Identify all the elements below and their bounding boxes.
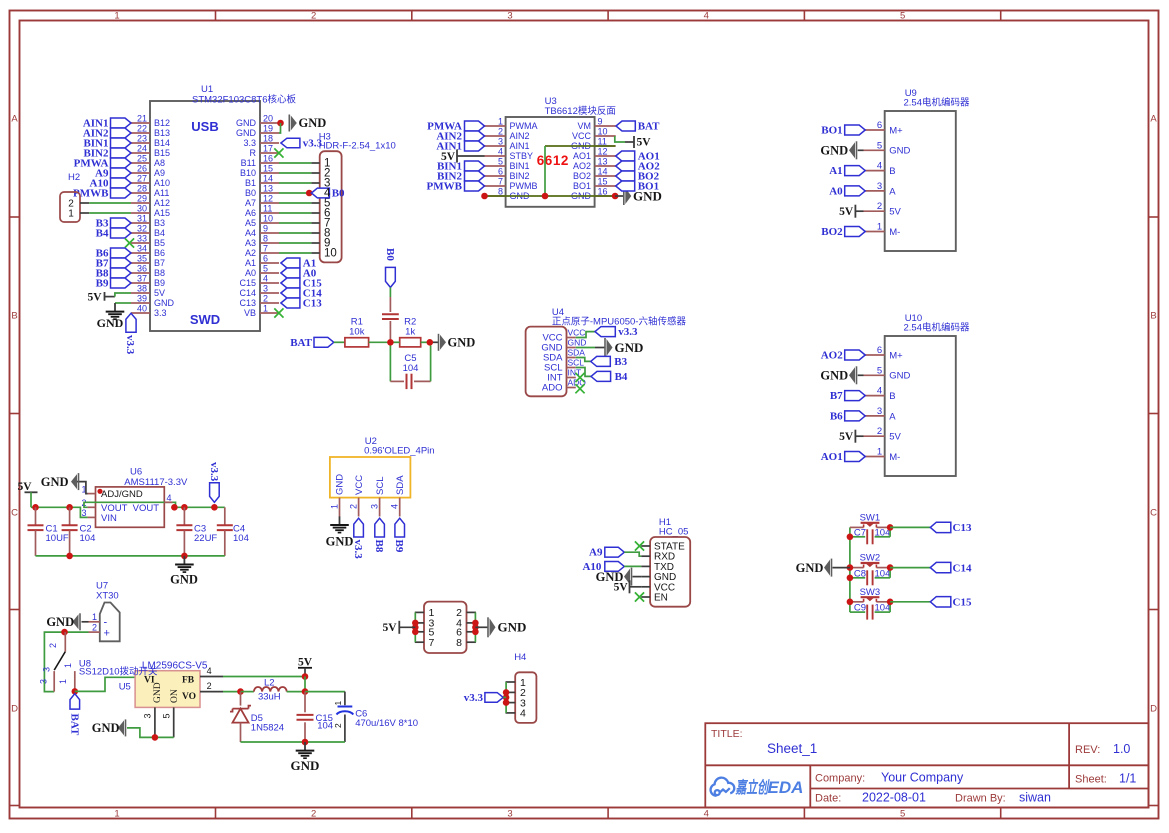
svg-text:GND: GND (291, 758, 320, 773)
svg-text:B13: B13 (154, 128, 170, 138)
svg-text:16: 16 (263, 154, 273, 164)
svg-text:GND: GND (46, 615, 74, 629)
svg-text:470u/16V 8*10: 470u/16V 8*10 (355, 718, 418, 729)
svg-text:2: 2 (207, 681, 212, 691)
svg-text:2.54电机编码器: 2.54电机编码器 (904, 97, 970, 109)
svg-text:22UF: 22UF (194, 533, 217, 544)
svg-text:3.3: 3.3 (154, 308, 167, 318)
svg-text:B3: B3 (614, 356, 627, 368)
svg-text:BO2: BO2 (573, 171, 591, 181)
svg-text:C13: C13 (303, 297, 322, 309)
svg-text:A6: A6 (245, 208, 256, 218)
svg-text:2: 2 (311, 809, 316, 820)
svg-text:AO1: AO1 (821, 451, 843, 463)
svg-text:4: 4 (877, 386, 882, 397)
svg-text:v3.3: v3.3 (618, 326, 638, 338)
svg-text:14: 14 (598, 167, 608, 177)
svg-text:1: 1 (58, 679, 68, 684)
svg-text:3: 3 (143, 713, 153, 718)
svg-text:6612: 6612 (537, 153, 569, 168)
svg-text:A1: A1 (245, 258, 256, 268)
svg-text:B8: B8 (154, 268, 165, 278)
svg-text:A9: A9 (589, 547, 603, 559)
svg-text:34: 34 (137, 244, 147, 254)
svg-text:HC_05: HC_05 (659, 526, 689, 537)
svg-text:AIN2: AIN2 (510, 131, 530, 141)
svg-text:USB: USB (191, 119, 218, 134)
svg-text:D: D (11, 703, 18, 714)
svg-text:PWMA: PWMA (510, 121, 538, 131)
svg-text:5V: 5V (17, 481, 32, 493)
svg-text:GND: GND (236, 128, 257, 138)
svg-text:GND: GND (326, 535, 354, 549)
svg-text:STM32F103C8T6核心板: STM32F103C8T6核心板 (192, 94, 297, 106)
svg-text:5V: 5V (839, 206, 854, 218)
svg-text:SDA: SDA (568, 348, 586, 358)
svg-text:AO2: AO2 (573, 161, 591, 171)
svg-text:GND: GND (92, 721, 120, 735)
svg-text:BO1: BO1 (821, 125, 842, 137)
svg-text:1: 1 (263, 304, 268, 314)
svg-text:30: 30 (137, 204, 147, 214)
svg-text:10: 10 (263, 214, 273, 224)
svg-text:5V: 5V (298, 657, 313, 669)
svg-text:6: 6 (263, 254, 268, 264)
svg-text:104: 104 (403, 363, 419, 374)
svg-text:9: 9 (263, 224, 268, 234)
svg-text:嘉立创: 嘉立创 (735, 778, 770, 797)
svg-text:ON: ON (170, 689, 180, 703)
svg-text:104: 104 (317, 720, 333, 731)
svg-text:3: 3 (370, 504, 380, 509)
svg-text:11: 11 (598, 137, 607, 147)
svg-text:3: 3 (498, 137, 503, 147)
svg-text:C14: C14 (953, 562, 972, 574)
svg-text:GND: GND (820, 144, 848, 158)
svg-text:5V: 5V (87, 291, 102, 303)
svg-text:VOUT: VOUT (133, 503, 160, 514)
svg-text:VO: VO (182, 692, 196, 702)
svg-text:1: 1 (92, 612, 97, 622)
svg-text:15: 15 (598, 177, 608, 187)
svg-text:Sheet:: Sheet: (1075, 774, 1107, 786)
svg-text:GND: GND (97, 316, 124, 330)
svg-text:38: 38 (137, 284, 147, 294)
svg-text:29: 29 (137, 194, 147, 204)
svg-text:1: 1 (63, 663, 73, 668)
svg-text:3: 3 (42, 667, 52, 672)
svg-text:D: D (1150, 703, 1157, 714)
svg-text:ADJ/GND: ADJ/GND (101, 489, 143, 500)
svg-text:13: 13 (598, 157, 608, 167)
svg-text:B14: B14 (154, 138, 170, 148)
svg-text:104: 104 (80, 533, 96, 544)
svg-text:GND: GND (820, 369, 848, 383)
svg-text:1.0: 1.0 (1113, 742, 1130, 756)
svg-text:A15: A15 (154, 208, 170, 218)
svg-text:C7: C7 (854, 527, 866, 538)
svg-text:REV:: REV: (1075, 744, 1100, 756)
svg-text:B1: B1 (245, 178, 256, 188)
svg-text:v3.3: v3.3 (208, 462, 220, 482)
svg-text:28: 28 (137, 184, 147, 194)
svg-text:FB: FB (182, 676, 195, 686)
svg-text:23: 23 (137, 134, 147, 144)
svg-text:1: 1 (114, 809, 119, 820)
svg-text:GND: GND (335, 474, 346, 495)
svg-text:SWD: SWD (190, 312, 220, 327)
svg-text:B0: B0 (332, 187, 345, 199)
svg-text:GND: GND (154, 298, 175, 308)
svg-text:SCL: SCL (375, 477, 386, 495)
svg-text:A9: A9 (154, 168, 165, 178)
svg-text:3: 3 (507, 809, 512, 820)
svg-text:A2: A2 (245, 248, 256, 258)
svg-text:BO2: BO2 (821, 226, 843, 238)
svg-text:B0: B0 (384, 248, 396, 261)
svg-text:B0: B0 (245, 188, 256, 198)
svg-text:GND: GND (568, 338, 587, 348)
svg-text:0.96'OLED_4Pin: 0.96'OLED_4Pin (364, 446, 434, 457)
svg-text:3: 3 (877, 406, 882, 417)
svg-text:GND: GND (448, 336, 476, 350)
svg-text:6: 6 (498, 167, 503, 177)
svg-text:B10: B10 (240, 168, 256, 178)
svg-text:GND: GND (889, 371, 910, 382)
svg-text:8: 8 (263, 234, 268, 244)
svg-text:31: 31 (137, 214, 147, 224)
svg-text:37: 37 (137, 274, 147, 284)
svg-text:SDA: SDA (395, 475, 406, 495)
svg-text:M+: M+ (889, 350, 903, 361)
svg-text:5: 5 (900, 809, 905, 820)
svg-text:A7: A7 (245, 198, 256, 208)
svg-text:BAT: BAT (290, 337, 312, 349)
svg-text:2: 2 (349, 504, 359, 509)
svg-text:A: A (11, 113, 18, 124)
svg-text:17: 17 (263, 144, 273, 154)
svg-text:M+: M+ (889, 125, 903, 136)
svg-text:R: R (250, 148, 257, 158)
svg-text:4: 4 (390, 504, 400, 509)
svg-text:Drawn By:: Drawn By: (955, 793, 1006, 805)
svg-text:27: 27 (137, 174, 147, 184)
svg-text:A: A (889, 186, 896, 197)
svg-text:SS12D10拨动开关: SS12D10拨动开关 (79, 665, 158, 677)
svg-text:26: 26 (137, 164, 147, 174)
svg-text:5: 5 (877, 140, 882, 151)
svg-text:5: 5 (900, 11, 905, 22)
svg-text:PMWB: PMWB (427, 180, 463, 192)
svg-text:v3.3: v3.3 (352, 540, 364, 560)
svg-text:U5: U5 (119, 682, 131, 693)
svg-text:BO1: BO1 (573, 181, 591, 191)
svg-text:A1: A1 (829, 165, 842, 177)
svg-text:+: + (104, 628, 110, 640)
svg-text:GND: GND (615, 340, 644, 355)
svg-text:VIN: VIN (101, 513, 117, 524)
svg-text:A: A (889, 411, 896, 422)
svg-text:A10: A10 (154, 178, 170, 188)
svg-text:2: 2 (877, 426, 882, 437)
svg-text:A8: A8 (154, 158, 165, 168)
svg-text:5V: 5V (614, 582, 629, 594)
svg-text:B4: B4 (96, 227, 109, 239)
svg-text:HDR-F-2.54_1x10: HDR-F-2.54_1x10 (319, 141, 396, 152)
svg-text:8: 8 (456, 637, 462, 649)
svg-text:VOUT: VOUT (101, 503, 128, 514)
svg-text:AO1: AO1 (573, 151, 591, 161)
svg-text:B: B (1150, 310, 1156, 321)
svg-text:A0: A0 (245, 268, 256, 278)
svg-text:20: 20 (263, 114, 273, 124)
svg-text:35: 35 (137, 254, 147, 264)
svg-text:9: 9 (598, 117, 603, 127)
svg-text:16: 16 (598, 187, 608, 197)
svg-text:A3: A3 (245, 238, 256, 248)
svg-text:M-: M- (889, 227, 900, 238)
svg-text:1: 1 (877, 447, 882, 458)
svg-text:B8: B8 (373, 540, 385, 553)
svg-text:4: 4 (520, 708, 526, 720)
svg-text:10k: 10k (349, 327, 365, 338)
svg-text:4: 4 (498, 147, 503, 157)
svg-text:A4: A4 (245, 228, 256, 238)
svg-text:2: 2 (333, 723, 343, 728)
svg-text:1k: 1k (405, 327, 415, 338)
svg-text:B: B (889, 166, 895, 177)
svg-text:3: 3 (507, 11, 512, 22)
svg-text:A0: A0 (829, 186, 843, 198)
svg-text:U1: U1 (201, 84, 213, 95)
svg-text:19: 19 (263, 124, 273, 134)
svg-text:3: 3 (81, 508, 86, 518)
svg-text:5: 5 (263, 264, 268, 274)
svg-text:B: B (889, 391, 895, 402)
svg-text:TB6612模块反面: TB6612模块反面 (545, 105, 616, 117)
svg-text:2.54电机编码器: 2.54电机编码器 (904, 322, 970, 334)
svg-text:L2: L2 (264, 677, 275, 688)
svg-text:C9: C9 (854, 603, 866, 614)
svg-text:B9: B9 (96, 277, 109, 289)
svg-text:24: 24 (137, 144, 147, 154)
svg-text:2: 2 (311, 11, 316, 22)
svg-text:4: 4 (324, 188, 331, 200)
svg-text:BO1: BO1 (638, 181, 659, 193)
svg-text:B6: B6 (154, 248, 165, 258)
svg-text:GND: GND (498, 620, 527, 635)
svg-text:21: 21 (137, 114, 147, 124)
svg-text:Your Company: Your Company (881, 771, 964, 785)
svg-text:10UF: 10UF (46, 533, 69, 544)
svg-text:GND: GND (889, 146, 910, 157)
svg-text:v3.3: v3.3 (124, 335, 136, 355)
svg-text:PWMB: PWMB (510, 181, 538, 191)
svg-text:BIN2: BIN2 (510, 171, 530, 181)
svg-text:4: 4 (704, 11, 709, 22)
svg-text:BIN1: BIN1 (510, 161, 530, 171)
svg-text:5V: 5V (839, 431, 854, 443)
svg-text:12: 12 (598, 147, 608, 157)
svg-text:B4: B4 (154, 228, 165, 238)
svg-text:5: 5 (498, 157, 503, 167)
svg-text:5V: 5V (441, 151, 456, 163)
svg-text:15: 15 (263, 164, 273, 174)
svg-text:B7: B7 (830, 390, 843, 402)
svg-text:40: 40 (137, 304, 147, 314)
svg-text:5: 5 (877, 365, 882, 376)
svg-text:VCC: VCC (572, 131, 592, 141)
svg-text:A12: A12 (154, 198, 170, 208)
svg-text:GND: GND (796, 561, 824, 575)
svg-text:1: 1 (498, 117, 503, 127)
svg-text:5V: 5V (382, 622, 397, 634)
svg-text:Sheet_1: Sheet_1 (767, 741, 817, 756)
svg-text:Date:: Date: (815, 793, 841, 805)
svg-text:1: 1 (68, 209, 74, 220)
svg-text:C8: C8 (854, 568, 866, 579)
svg-text:1/1: 1/1 (1119, 772, 1136, 786)
svg-text:25: 25 (137, 154, 147, 164)
svg-text:2: 2 (877, 201, 882, 212)
svg-text:33uH: 33uH (258, 691, 281, 702)
svg-text:ADO: ADO (542, 383, 563, 394)
svg-text:B9: B9 (393, 540, 405, 553)
svg-text:10: 10 (324, 248, 337, 260)
svg-text:3: 3 (877, 181, 882, 192)
svg-text:6: 6 (877, 120, 882, 131)
svg-text:M-: M- (889, 452, 900, 463)
svg-text:B7: B7 (154, 258, 165, 268)
svg-text:2: 2 (263, 294, 268, 304)
svg-text:XT30: XT30 (96, 591, 119, 602)
svg-text:B6: B6 (830, 411, 843, 423)
svg-text:5: 5 (162, 713, 172, 718)
svg-text:Company:: Company: (815, 773, 865, 785)
svg-text:B9: B9 (154, 278, 165, 288)
svg-text:VB: VB (244, 308, 256, 318)
svg-text:SCL: SCL (568, 358, 585, 368)
svg-text:TITLE:: TITLE: (711, 728, 743, 740)
svg-text:B5: B5 (154, 238, 165, 248)
svg-text:VCC: VCC (354, 475, 365, 495)
svg-text:2: 2 (92, 623, 97, 633)
svg-text:104: 104 (233, 533, 249, 544)
svg-text:B4: B4 (615, 371, 628, 383)
svg-text:4: 4 (207, 666, 212, 676)
svg-text:1: 1 (114, 11, 119, 22)
svg-text:1: 1 (877, 222, 882, 233)
svg-text:2022-08-01: 2022-08-01 (862, 791, 926, 805)
svg-text:C: C (1150, 507, 1157, 518)
svg-text:3: 3 (39, 679, 49, 684)
svg-text:4: 4 (877, 161, 882, 172)
svg-text:C13: C13 (953, 522, 972, 534)
svg-text:4: 4 (704, 809, 709, 820)
svg-text:3: 3 (263, 284, 268, 294)
svg-text:18: 18 (263, 134, 273, 144)
svg-text:13: 13 (263, 184, 273, 194)
svg-text:B: B (11, 310, 17, 321)
svg-text:10: 10 (598, 127, 608, 137)
svg-text:H4: H4 (514, 652, 526, 663)
svg-text:STBY: STBY (510, 151, 534, 161)
svg-text:AIN1: AIN1 (510, 141, 530, 151)
svg-text:33: 33 (137, 234, 147, 244)
svg-text:1: 1 (330, 504, 340, 509)
svg-text:3.3: 3.3 (243, 138, 256, 148)
svg-text:VM: VM (578, 121, 592, 131)
svg-text:C15: C15 (953, 597, 972, 609)
svg-text:22: 22 (137, 124, 147, 134)
svg-text:6: 6 (877, 345, 882, 356)
svg-text:39: 39 (137, 294, 147, 304)
svg-text:B3: B3 (154, 218, 165, 228)
svg-text:BAT: BAT (68, 714, 80, 736)
svg-text:B15: B15 (154, 148, 170, 158)
svg-text:A11: A11 (154, 188, 169, 198)
svg-text:GND: GND (170, 573, 198, 587)
svg-text:EN: EN (654, 593, 668, 604)
svg-text:36: 36 (137, 264, 147, 274)
svg-text:5V: 5V (154, 288, 165, 298)
svg-text:v3.3: v3.3 (464, 692, 484, 704)
svg-text:BAT: BAT (638, 121, 660, 133)
svg-text:C14: C14 (239, 288, 256, 298)
svg-text:B11: B11 (241, 158, 256, 168)
svg-text:7: 7 (263, 244, 268, 254)
svg-text:1N5824: 1N5824 (251, 723, 284, 734)
svg-text:4: 4 (263, 274, 268, 284)
svg-text:A5: A5 (245, 218, 256, 228)
svg-text:A: A (1150, 113, 1157, 124)
svg-text:5V: 5V (637, 137, 652, 149)
svg-text:12: 12 (263, 194, 273, 204)
svg-text:C15: C15 (239, 278, 256, 288)
svg-text:32: 32 (137, 224, 147, 234)
svg-text:11: 11 (263, 204, 272, 214)
svg-text:5V: 5V (889, 207, 901, 218)
svg-text:1: 1 (333, 701, 343, 706)
svg-text:7: 7 (498, 177, 503, 187)
svg-text:siwan: siwan (1019, 791, 1051, 805)
svg-text:2: 2 (48, 643, 58, 648)
svg-text:GND: GND (153, 682, 163, 703)
svg-text:2: 2 (498, 127, 503, 137)
svg-text:8: 8 (498, 187, 503, 197)
svg-text:14: 14 (263, 174, 273, 184)
svg-text:AO2: AO2 (821, 350, 844, 362)
svg-text:VCC: VCC (568, 328, 586, 338)
svg-text:GND: GND (41, 475, 69, 489)
svg-text:C: C (11, 507, 18, 518)
svg-text:5V: 5V (889, 432, 901, 443)
svg-text:GND: GND (299, 116, 327, 130)
svg-text:H2: H2 (68, 172, 80, 183)
svg-text:B12: B12 (154, 118, 170, 128)
svg-text:C13: C13 (239, 298, 256, 308)
svg-text:7: 7 (429, 637, 435, 649)
svg-text:GND: GND (236, 118, 257, 128)
svg-text:EDA: EDA (768, 778, 804, 797)
